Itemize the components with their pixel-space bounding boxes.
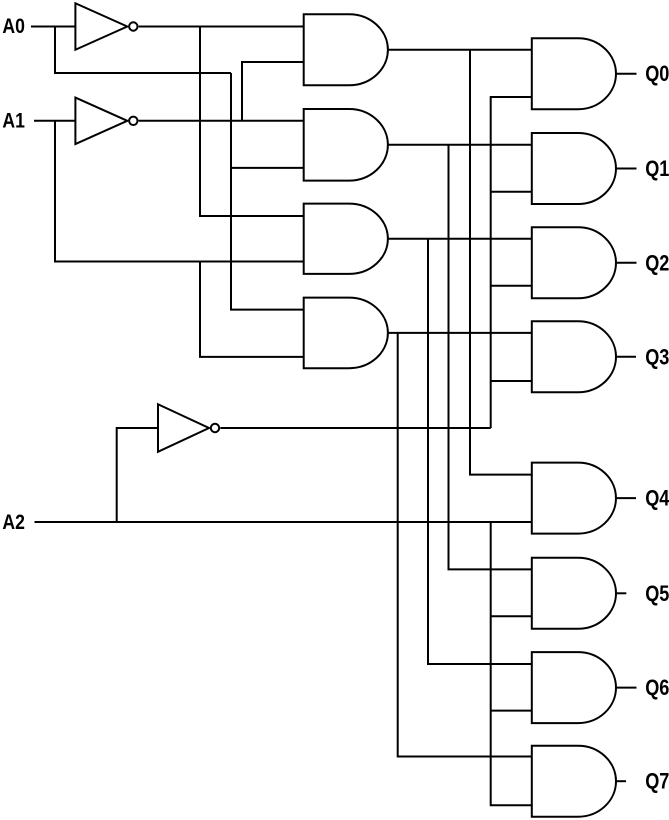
wire M4 branch down to Q7 upper input [398,333,532,757]
inverter U2 (A1) [75,98,127,145]
wire nA2 stub to Q1 lower input [491,191,532,193]
svg-text:Q4: Q4 [645,486,669,511]
wire nA2 bus up to Q0 lower input [491,97,532,428]
AND gate U9 (Q5) [532,558,616,629]
inverter U1 (A0) [75,3,127,50]
AND gate M4 (A0 AND A1) [304,298,388,369]
wire nA2 from U3 output [220,427,490,429]
AND gate U11 (Q7) [532,746,616,817]
wire A1 branch to M3 lower input [55,121,304,262]
wire A2 to Q4 gate lower input [35,521,532,523]
AND gate U10 (Q6) [532,652,616,723]
wire A0 branch down to bus node [55,27,231,74]
svg-text:Q0: Q0 [645,61,669,86]
wire nA0 branch to M3 upper input [200,27,304,217]
wire Q3 output stub [616,356,636,358]
wire nA2 stub to Q3 lower input [491,380,532,382]
inverter U3 (A2) [158,404,209,452]
wire A2 branch up to U3 input [117,428,158,522]
AND gate U7 (Q3) [532,321,616,392]
wire Q5 output stub [616,592,626,594]
AND gate M3 (nA0 AND A1) [304,204,388,274]
AND gate U6 (Q2) [532,227,616,298]
svg-text:A2: A2 [2,511,25,534]
wire Q4 output stub [616,497,636,499]
wire Q7 output stub [616,780,626,782]
inverter U2 bubble [129,117,137,125]
wire M2 output to Q1 upper input [388,144,532,146]
svg-text:Q5: Q5 [645,581,669,606]
wire A2 bus down to Q7 lower input [491,522,532,805]
inverter U1 bubble [129,22,137,30]
svg-text:Q7: Q7 [645,769,669,794]
wire Q6 output stub [616,687,637,689]
wire nA2 stub to Q2 lower input [491,285,532,287]
wire Q1 output stub [616,168,637,170]
AND gate U4 (Q0) [532,38,616,109]
wire M2 branch down to Q5 upper input [449,145,532,570]
wire Q0 output stub [616,73,637,75]
wire nA1 branch up to M1 lower input [242,62,304,121]
wire A0 input lead [31,26,75,28]
wire A2 stub to Q5 lower input [491,615,532,617]
wire A1 branch to M4 lower input [200,262,304,357]
wire M3 output to Q2 upper input [388,238,532,240]
wire A0 bus to M4 upper input [231,73,304,310]
wire nA0 from U1 output to M1 upper input [139,26,304,28]
wire Q2 output stub [616,262,637,264]
wire A1 input lead [34,120,75,122]
AND gate U8 (Q4) [532,463,616,534]
inverter U3 bubble [211,424,219,432]
AND gate M1 (nA0 AND nA1) [304,14,388,85]
AND gate M2 (A0 AND nA1) [304,109,388,181]
wire M1 output to Q0 upper input [388,49,532,51]
svg-text:Q2: Q2 [645,250,669,275]
wire A2 stub to Q6 lower input [491,710,532,712]
wire nA1 from U2 output to M2 upper input [139,120,304,122]
wire M4 output to Q3 upper input [388,332,532,334]
svg-text:Q6: Q6 [645,675,669,700]
AND gate U5 (Q1) [532,133,616,204]
svg-text:A0: A0 [2,15,25,38]
wire M3 branch down to Q6 upper input [428,239,532,664]
wire A0 stub to M2 lower input [231,167,304,169]
svg-text:Q3: Q3 [645,344,669,369]
svg-text:A1: A1 [2,109,25,132]
svg-text:Q1: Q1 [645,156,669,181]
wire M1 branch down to Q4 upper input [470,50,532,475]
